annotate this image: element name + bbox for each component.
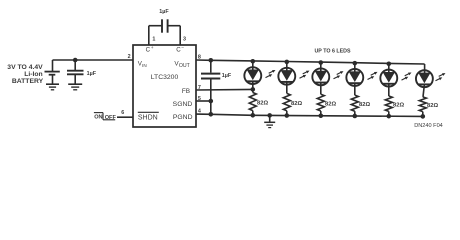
svg-text:DN240 F04: DN240 F04 [414, 123, 443, 129]
svg-text:SHDN: SHDN [138, 114, 158, 121]
LED D6 [416, 70, 433, 87]
IC U1 LTC3200 body [133, 45, 196, 127]
node bottom rail junction R2 [285, 113, 290, 118]
svg-text:OFF: OFF [105, 115, 117, 121]
wire [354, 111, 356, 116]
svg-text:LTC3200: LTC3200 [151, 74, 179, 81]
ground (input cap) [68, 84, 82, 90]
resistor R3 82 ohm [317, 94, 324, 111]
wire [354, 63, 356, 72]
svg-text:1: 1 [152, 37, 155, 43]
wire [252, 81, 254, 92]
svg-text:BATTERY: BATTERY [12, 78, 44, 85]
node top rail junction D3 [319, 60, 324, 65]
LED D1 [244, 67, 261, 84]
resistor R1 82 ohm [249, 93, 256, 111]
svg-text:1µF: 1µF [222, 73, 232, 79]
LED light arrows [436, 73, 446, 81]
ground (battery) [46, 84, 59, 90]
capacitor C2 1uF (flying) [159, 9, 169, 33]
svg-text:1µF: 1µF [159, 9, 169, 15]
LED light arrows [266, 70, 276, 78]
node input cap junction [73, 58, 78, 63]
svg-text:82Ω: 82Ω [393, 103, 404, 109]
svg-text:82Ω: 82Ω [257, 100, 268, 106]
wire [252, 111, 254, 116]
resistor R4 82 ohm [351, 95, 358, 111]
LED light arrows [368, 72, 378, 80]
wire [422, 112, 424, 117]
LED light arrows [402, 73, 412, 81]
wire battery to VIN [53, 59, 134, 61]
LED light arrows [334, 71, 344, 79]
IC U1 pin name labels (C+, C-, VIN, VOUT, LTC3200, FB, SGND, PGND, SHDN) [138, 46, 193, 121]
wire [320, 62, 322, 71]
pin 1 stub (C+) [148, 26, 150, 45]
svg-text:82Ω: 82Ω [359, 102, 370, 108]
resistor R6 82 ohm [419, 97, 426, 112]
wire [388, 63, 390, 72]
wire [424, 64, 426, 73]
wire [286, 62, 288, 71]
wire [423, 84, 424, 97]
LED D5 [380, 70, 397, 87]
wire [388, 84, 390, 96]
battery label text [7, 64, 43, 85]
node FB junction [251, 87, 256, 92]
svg-text:+: + [151, 46, 154, 51]
LED D2 [278, 68, 295, 85]
wire [354, 83, 356, 95]
node top rail junction D2 [285, 60, 290, 65]
svg-text:82Ω: 82Ω [291, 101, 302, 107]
node bottom rail junction R5 [387, 114, 392, 119]
svg-text:6: 6 [121, 110, 124, 116]
svg-text:82Ω: 82Ω [427, 103, 438, 109]
node bottom rail junction R3 [319, 113, 324, 118]
svg-text:SGND: SGND [173, 101, 193, 108]
svg-text:82Ω: 82Ω [325, 101, 336, 107]
resistor R5 82 ohm [385, 96, 392, 111]
svg-text:PGND: PGND [173, 114, 193, 121]
ON/OFF control marking [94, 113, 117, 122]
LED branches [244, 59, 445, 119]
wire VOUT top rail [196, 60, 425, 64]
node top rail junction D5 [387, 61, 392, 66]
resistor R2 82 ohm [283, 93, 290, 110]
LED light arrows [300, 71, 310, 79]
svg-text:OUT: OUT [179, 63, 191, 69]
SHDN overline [138, 111, 159, 113]
wire from flying cap [168, 25, 180, 27]
node top rail junction D4 [353, 61, 358, 66]
svg-text:1µF: 1µF [87, 71, 97, 77]
wire PGND bottom rail [196, 114, 423, 116]
battery BT1 [45, 60, 60, 84]
capacitor C1 1uF (input) [67, 60, 97, 84]
svg-text:−: − [181, 46, 184, 51]
wire [388, 111, 390, 116]
svg-text:FB: FB [182, 88, 190, 95]
svg-text:2: 2 [128, 54, 131, 60]
wire [286, 82, 288, 93]
capacitor C3 1uF (output) [201, 58, 232, 117]
node bottom rail junction R6 [421, 114, 426, 119]
LED D3 [312, 68, 329, 85]
svg-text:UP TO 6 LEDS: UP TO 6 LEDS [314, 48, 350, 54]
node bottom rail junction R4 [353, 114, 358, 119]
wire [320, 111, 322, 116]
LED D4 [346, 69, 363, 86]
svg-text:ON: ON [94, 114, 102, 120]
wire [252, 61, 254, 70]
wire to flying cap [149, 25, 162, 27]
wire ON/OFF to SHDN pin 6 [117, 116, 133, 118]
svg-text:IN: IN [142, 63, 147, 68]
node top rail junction D1 [251, 59, 256, 64]
node bottom rail junction R1 [251, 113, 256, 118]
svg-text:3: 3 [183, 37, 186, 43]
wire SGND [196, 100, 211, 102]
wire [320, 83, 322, 95]
wire [286, 111, 288, 116]
pin 3 stub (C-) [179, 26, 181, 45]
wire FB to first LED junction [196, 88, 253, 91]
ground (output, PGND) [264, 113, 275, 128]
